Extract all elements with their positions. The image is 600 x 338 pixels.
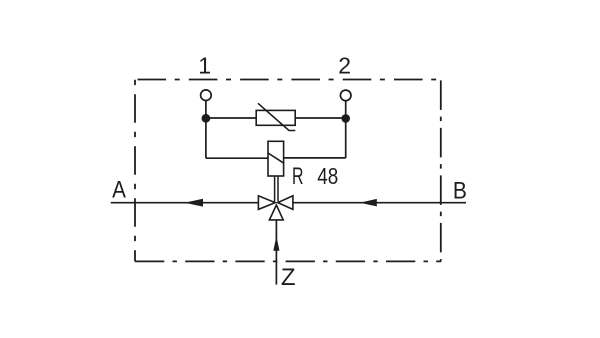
wire: upper wire from thermistor to junction 2 xyxy=(295,117,346,119)
enclosure boundary (dash-dot frame) xyxy=(135,80,441,262)
arrowhead on line Z (pointing up) xyxy=(273,236,279,251)
junction dot at port 2 xyxy=(341,114,350,123)
junction dot at port 1 xyxy=(202,114,211,123)
wire: stem from port 1 down to lower loop xyxy=(205,101,207,159)
wire: lower loop right horizontal xyxy=(284,157,346,159)
wire: line B xyxy=(293,202,466,204)
svg-text:48: 48 xyxy=(317,163,338,189)
terminal circle port 1 xyxy=(201,90,212,101)
svg-text:Z: Z xyxy=(281,264,296,291)
wire: upper wire from junction 1 to thermistor xyxy=(206,117,256,119)
arrowhead on line A (pointing left) xyxy=(184,199,203,207)
svg-text:R: R xyxy=(292,163,304,190)
wire: line Z vertical xyxy=(275,220,277,285)
adjustable resistor R 48 body xyxy=(268,141,284,176)
wire: stem from port 2 down to lower loop xyxy=(345,101,347,158)
terminal circle port 2 xyxy=(340,90,351,101)
svg-text:B: B xyxy=(453,177,467,204)
valve left triangle xyxy=(258,196,275,210)
R 48 diagonal stroke xyxy=(268,153,284,163)
svg-text:1: 1 xyxy=(198,52,211,78)
valve right triangle xyxy=(278,196,293,210)
svg-text:2: 2 xyxy=(338,53,351,79)
thermistor body (temperature-dependent resistor) xyxy=(256,110,295,125)
svg-text:A: A xyxy=(112,176,126,203)
thermistor diagonal stroke with foot xyxy=(258,103,295,130)
wire: line A xyxy=(111,202,259,204)
mechanical double link from R 48 to valve xyxy=(274,176,276,202)
arrowhead on line B (pointing left) xyxy=(360,199,377,207)
valve bottom triangle xyxy=(269,205,283,220)
wire: lower loop left horizontal xyxy=(206,157,268,159)
